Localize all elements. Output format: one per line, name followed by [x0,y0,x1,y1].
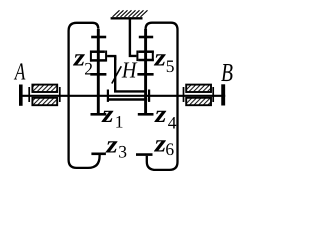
bearing left lower block [32,98,57,105]
svg-text:3: 3 [118,141,127,161]
svg-text:z: z [154,101,167,128]
svg-text:z: z [153,44,166,71]
bearing right lower block [186,98,211,105]
ring gear z6 housing loop (right stadium) [146,23,178,170]
ring gear z3 housing loop (left stadium, open C path into planet column) [69,23,100,168]
gear z3 rim bar [91,153,106,156]
carrier bearing tick right on axis [148,90,150,102]
gear z5 rectangle [137,51,153,62]
carrier H bracket [115,56,147,91]
ground hatching [113,10,148,17]
left column upper crossbar [91,36,106,39]
carrier bearing tick left on axis [107,90,109,102]
svg-text:4: 4 [168,112,177,132]
fixed frame support top (ground) [111,17,143,19]
carrier hub bar under axis [109,98,147,100]
bearing left upper block [32,85,57,92]
left column lower crossbar [90,73,106,76]
right column lower crossbar [137,73,153,76]
wire gear z2 to carrier [107,56,115,60]
svg-text:6: 6 [165,139,174,159]
bearing left end ticks [28,87,30,102]
gear z1 rim T-foot [91,113,107,116]
planet column left (z2 shaft / z1 gear disc) [97,29,100,113]
shaft B end cap [221,84,225,105]
svg-text:1: 1 [115,112,124,132]
svg-text:z: z [105,132,118,159]
gear z4 rim T-foot [138,113,154,116]
bearing right end ticks [183,87,185,102]
planet column right (z5 shaft / z4 gear disc) [144,29,147,113]
gear z2 rectangle [90,51,106,62]
wire main axis A-B [20,95,225,97]
bearing right upper block [186,85,211,92]
svg-text:2: 2 [84,58,93,78]
svg-text:z: z [101,101,114,128]
svg-text:5: 5 [166,56,175,76]
svg-text:H: H [121,58,138,83]
right column upper crossbar [139,36,153,39]
label H leader slash [112,66,122,83]
svg-text:A: A [13,58,26,85]
svg-text:B: B [221,58,233,87]
gear z6 rim bar [136,153,153,156]
shaft A end cap [19,85,23,106]
wire support drop to gear block [130,20,137,56]
